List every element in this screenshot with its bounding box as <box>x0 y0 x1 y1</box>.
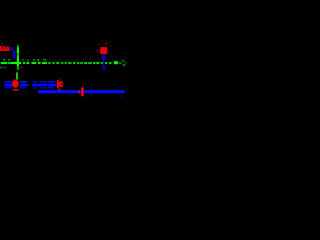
red tick label text (top-left) <box>0 44 10 52</box>
red flag blob <box>58 81 63 87</box>
red badge top bump <box>14 79 17 81</box>
red flag pole <box>57 80 59 89</box>
red badge underline <box>13 89 19 91</box>
blue vertical marker stem <box>103 55 104 68</box>
red flag underline dash <box>58 89 61 91</box>
blue vertical marker bottom blob <box>102 67 105 70</box>
background <box>0 0 128 128</box>
green cursor top dot <box>17 45 18 46</box>
blue text row 1 <box>5 81 55 83</box>
green cursor bright segment upper <box>17 47 19 53</box>
blue diagonal tail dot <box>13 57 15 59</box>
red square scatter dots <box>97 43 110 52</box>
blue progress bar <box>38 90 125 93</box>
green vertical cursor line <box>17 46 19 70</box>
green end scatter dots <box>122 60 127 66</box>
red notch inside bar <box>78 90 80 93</box>
red flag notch <box>61 84 63 85</box>
hline small gaps <box>7 62 8 64</box>
blue dot below bar right end <box>121 96 123 98</box>
red flag top dot <box>59 78 60 79</box>
blue text row 3 <box>4 87 54 89</box>
green hline end dim tail <box>119 62 122 64</box>
dim green dash row below hline <box>0 67 22 69</box>
blue vertical marker top blob <box>102 55 106 59</box>
blue text row 2 (bright) <box>4 84 56 86</box>
dim green dash row above hline <box>3 59 46 61</box>
red tall tick over bar <box>81 87 84 96</box>
green hline end bright blob <box>114 61 118 64</box>
red round badge over text rows <box>12 80 19 88</box>
red square marker <box>100 47 107 54</box>
green cursor bright segment lower <box>17 55 19 66</box>
blue diagonal annotation stroke <box>10 47 16 58</box>
green stem top dot <box>16 72 17 73</box>
green stem above red badge <box>16 73 18 80</box>
green dashed hline: medium dashes middle <box>48 62 111 64</box>
green dashed hline: solid bright left part <box>1 62 22 64</box>
green dashed hline: bright dashed mid-left <box>23 62 47 64</box>
